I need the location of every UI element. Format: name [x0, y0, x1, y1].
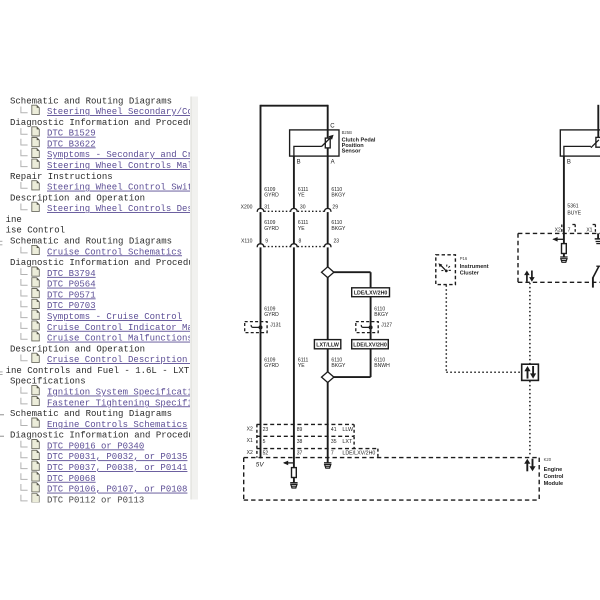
svg-text:X200: X200: [241, 204, 253, 210]
svg-text:ine Controls and Fuel - 1.6L -: ine Controls and Fuel - 1.6L - LXT (LUJ): [6, 366, 222, 376]
svg-text:DTC P0016 or P0340: DTC P0016 or P0340: [47, 441, 144, 451]
svg-text:Module: Module: [544, 481, 564, 487]
svg-text:A: A: [331, 160, 335, 166]
svg-text:LXT: LXT: [342, 439, 353, 445]
svg-text:YE: YE: [298, 226, 305, 232]
svg-text:K20: K20: [544, 457, 552, 462]
svg-text:Sensor: Sensor: [342, 149, 362, 155]
svg-text:LXT/LLW: LXT/LLW: [316, 343, 339, 349]
svg-text:89: 89: [297, 427, 303, 433]
svg-text:P16: P16: [460, 256, 468, 261]
svg-text:Diagnostic Information and Pro: Diagnostic Information and Procedures: [10, 258, 210, 268]
svg-text:ise Control: ise Control: [6, 226, 65, 236]
svg-text:Diagnostic Information and Pro: Diagnostic Information and Procedures: [10, 431, 210, 441]
svg-text:Cluster: Cluster: [460, 271, 480, 277]
svg-text:Ignition System Specifications: Ignition System Specifications: [47, 388, 209, 398]
svg-text:X1: X1: [247, 438, 253, 444]
svg-text:DTC B1529: DTC B1529: [47, 129, 96, 139]
svg-text:DTC P0106, P0107, or P0108: DTC P0106, P0107, or P0108: [47, 485, 187, 495]
svg-text:Control: Control: [544, 474, 564, 480]
svg-text:YE: YE: [298, 192, 305, 198]
svg-text:9: 9: [265, 238, 268, 244]
svg-text:DTC P0068: DTC P0068: [47, 474, 96, 484]
svg-text:5: 5: [263, 439, 266, 445]
svg-text:J127: J127: [381, 322, 392, 328]
svg-text:C: C: [330, 123, 335, 129]
svg-text:B: B: [567, 160, 571, 166]
svg-text:X110: X110: [241, 238, 252, 244]
svg-text:X1: X1: [586, 227, 592, 233]
svg-text:Symptoms - Cruise Control: Symptoms - Cruise Control: [47, 312, 182, 322]
svg-text:Description and Operation: Description and Operation: [10, 344, 145, 354]
svg-text:Diagnostic Information and Pro: Diagnostic Information and Procedures: [10, 118, 210, 128]
svg-text:BUYE: BUYE: [567, 210, 581, 216]
svg-text:DTC P0031, P0032, or P0135: DTC P0031, P0032, or P0135: [47, 452, 187, 462]
svg-text:DTC P0703: DTC P0703: [47, 301, 96, 311]
svg-text:31: 31: [264, 204, 270, 210]
svg-text:7: 7: [331, 450, 334, 456]
svg-text:LDE/LXV/2H0: LDE/LXV/2H0: [342, 450, 375, 456]
svg-text:37: 37: [297, 450, 303, 456]
svg-text:Instrument: Instrument: [460, 264, 489, 270]
svg-text:23: 23: [334, 238, 340, 244]
svg-text:X2: X2: [247, 426, 253, 432]
svg-text:DTC B3622: DTC B3622: [47, 139, 96, 149]
svg-text:BKGY: BKGY: [331, 192, 345, 198]
svg-text:Repair Instructions: Repair Instructions: [10, 172, 113, 182]
svg-text:DTC P0037, P0038, or P0141: DTC P0037, P0038, or P0141: [47, 463, 187, 473]
svg-text:ine: ine: [6, 215, 22, 225]
svg-text:29: 29: [332, 204, 338, 210]
svg-text:X2: X2: [555, 227, 561, 233]
svg-text:5361: 5361: [567, 204, 578, 210]
svg-text:GYRD: GYRD: [264, 226, 279, 232]
svg-text:Engine Controls Schematics: Engine Controls Schematics: [47, 420, 187, 430]
svg-text:DTC P0564: DTC P0564: [47, 280, 96, 290]
svg-text:30: 30: [300, 204, 306, 210]
svg-text:DTC B3794: DTC B3794: [47, 269, 96, 279]
svg-text:23: 23: [263, 427, 269, 433]
svg-text:52: 52: [263, 450, 269, 456]
svg-text:DTC P0571: DTC P0571: [47, 290, 96, 300]
svg-text:LLW: LLW: [342, 427, 354, 433]
svg-text:7: 7: [568, 227, 571, 233]
svg-text:8: 8: [299, 238, 302, 244]
svg-text:X2: X2: [247, 450, 253, 456]
svg-text:GYRD: GYRD: [264, 363, 279, 369]
svg-text:LDE/LXV/2H0: LDE/LXV/2H0: [353, 343, 387, 349]
svg-text:BKGY: BKGY: [331, 363, 345, 369]
svg-text:YE: YE: [298, 363, 305, 369]
svg-text:38: 38: [297, 439, 303, 445]
svg-text:5V: 5V: [256, 462, 265, 469]
svg-text:Cruise Control Malfunctions: Cruise Control Malfunctions: [47, 334, 193, 344]
svg-text:35: 35: [331, 439, 337, 445]
svg-text:BKGY: BKGY: [374, 312, 388, 318]
svg-text:B: B: [297, 160, 301, 166]
svg-text:BNWH: BNWH: [374, 363, 390, 369]
svg-text:41: 41: [331, 427, 337, 433]
svg-text:Description and Operation: Description and Operation: [10, 193, 145, 203]
svg-text:Engine: Engine: [544, 467, 563, 473]
svg-text:LDE/LXV/2H0: LDE/LXV/2H0: [354, 291, 388, 297]
svg-text:GYRD: GYRD: [264, 312, 279, 318]
svg-text:GYRD: GYRD: [264, 192, 279, 198]
svg-text:J131: J131: [270, 322, 281, 328]
svg-text:BKGY: BKGY: [331, 226, 345, 232]
svg-text:B25B: B25B: [342, 130, 352, 135]
svg-text:Cruise Control Schematics: Cruise Control Schematics: [47, 247, 182, 257]
svg-text:Specifications: Specifications: [10, 377, 86, 387]
